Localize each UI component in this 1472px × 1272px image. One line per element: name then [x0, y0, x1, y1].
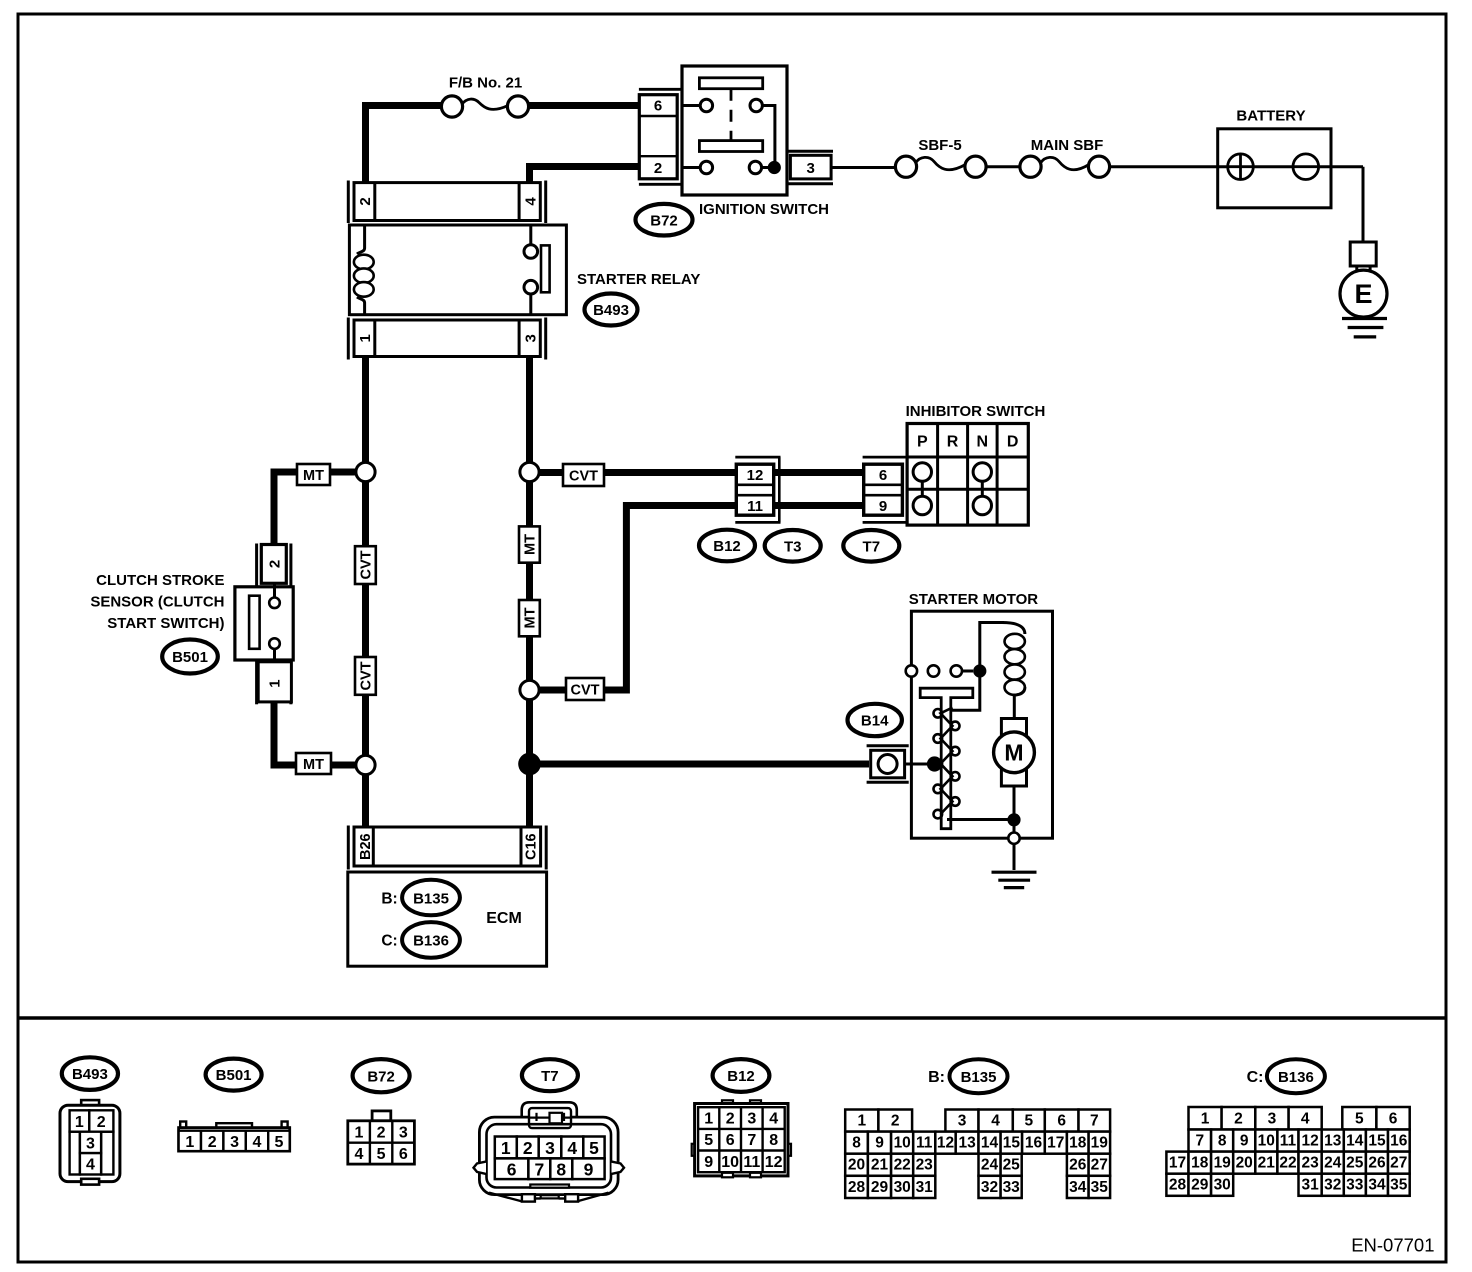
CVT tag right of node	[563, 464, 604, 486]
svg-text:27: 27	[1091, 1157, 1108, 1174]
label T7 oval	[843, 530, 899, 562]
svg-text:5: 5	[1355, 1110, 1364, 1127]
separator line	[18, 1016, 1446, 1020]
svg-text:MT: MT	[523, 607, 539, 628]
svg-text:4: 4	[354, 1146, 363, 1163]
svg-text:CVT: CVT	[359, 661, 375, 690]
inhibitor N contacts	[981, 472, 984, 506]
svg-text:9: 9	[704, 1154, 713, 1171]
battery positive terminal	[1228, 154, 1254, 180]
svg-text:B:: B:	[928, 1069, 945, 1086]
ECM connector row	[354, 827, 541, 866]
svg-text:1: 1	[704, 1111, 713, 1128]
svg-text:10: 10	[1258, 1132, 1275, 1149]
ignition switch connector pin 3	[788, 150, 833, 153]
svg-text:MT: MT	[303, 468, 324, 484]
junction dot at ignition switch output	[768, 161, 781, 174]
svg-text:18: 18	[1069, 1135, 1087, 1152]
svg-text:B12: B12	[713, 538, 741, 555]
svg-text:2: 2	[357, 197, 374, 205]
wire: B14 into motor to plunger contact	[905, 763, 935, 766]
wire: MT branch to clutch stroke sensor pin2	[274, 472, 366, 546]
op: ignition switch U-B72 body	[682, 66, 787, 195]
wire: starter relay pin4 to ignition switch pin2	[530, 167, 641, 185]
svg-text:2: 2	[266, 560, 283, 568]
svg-text:24: 24	[981, 1157, 999, 1174]
svg-text:B14: B14	[861, 713, 889, 730]
svg-text:25: 25	[1003, 1157, 1021, 1174]
connector B14	[867, 744, 909, 747]
bottom label B501 oval	[206, 1059, 262, 1091]
svg-text:25: 25	[1346, 1155, 1364, 1172]
T7 pin cells row 1	[495, 1137, 517, 1159]
svg-text:4: 4	[86, 1157, 95, 1174]
svg-text:8: 8	[1218, 1132, 1227, 1149]
svg-text:STARTER MOTOR: STARTER MOTOR	[909, 591, 1039, 608]
MT tag bottom	[296, 753, 331, 774]
svg-text:INHIBITOR SWITCH: INHIBITOR SWITCH	[906, 403, 1046, 420]
ground E block	[1350, 242, 1376, 266]
T7 bottom boot	[489, 1193, 522, 1202]
bottom connector B72	[372, 1111, 391, 1121]
svg-text:19: 19	[1091, 1135, 1109, 1152]
svg-text:20: 20	[1236, 1155, 1253, 1172]
svg-text:MAIN SBF: MAIN SBF	[1031, 137, 1104, 154]
svg-text:6: 6	[654, 98, 662, 115]
wire: contact dot down to plunger	[940, 671, 980, 710]
node: CVT junction top	[520, 462, 539, 481]
svg-text:19: 19	[1214, 1155, 1232, 1172]
starter relay body	[349, 225, 566, 315]
svg-text:6: 6	[1389, 1110, 1398, 1127]
svg-text:5: 5	[274, 1134, 283, 1151]
svg-text:3: 3	[958, 1112, 967, 1129]
svg-text:1: 1	[354, 1125, 363, 1142]
svg-text:26: 26	[1368, 1155, 1386, 1172]
ignition switch connector pins 6/2	[639, 88, 682, 91]
svg-text:2: 2	[891, 1112, 900, 1129]
CVT tag lower on MT line	[355, 657, 376, 695]
svg-text:26: 26	[1069, 1157, 1087, 1174]
svg-text:2: 2	[377, 1125, 386, 1142]
svg-text:2: 2	[726, 1111, 735, 1128]
clutch stroke sensor body B501	[235, 587, 293, 660]
svg-text:CLUTCH STROKE: CLUTCH STROKE	[96, 572, 224, 589]
ground symbol starter motor	[992, 871, 1037, 874]
svg-text:1: 1	[1201, 1110, 1210, 1127]
battery negative terminal	[1293, 154, 1319, 180]
svg-text:B493: B493	[593, 302, 629, 319]
bottom connector B501	[180, 1122, 186, 1129]
svg-text:IGNITION SWITCH: IGNITION SWITCH	[699, 201, 829, 218]
T7 pin cells row 2	[495, 1158, 529, 1179]
svg-text:4: 4	[769, 1111, 778, 1128]
svg-text:12: 12	[937, 1135, 954, 1152]
svg-text:6: 6	[399, 1146, 408, 1163]
svg-text:17: 17	[1169, 1155, 1186, 1172]
svg-text:9: 9	[584, 1160, 594, 1180]
ignition switch contact wires	[684, 104, 701, 107]
svg-text:CVT: CVT	[571, 683, 600, 699]
svg-text:B136: B136	[413, 933, 449, 950]
svg-text:3: 3	[230, 1134, 239, 1151]
wire: ignition pin3 to SBF-5	[831, 166, 896, 169]
wire to starter motor ground	[1013, 844, 1016, 870]
wire: pin11 to inhibitor pin9	[772, 502, 865, 509]
T7 side latches	[474, 1162, 487, 1174]
svg-text:12: 12	[765, 1154, 783, 1171]
starter motor field coil	[1002, 623, 1025, 635]
svg-text:30: 30	[894, 1179, 911, 1196]
svg-text:C:: C:	[381, 933, 397, 950]
bottom label B12 oval	[713, 1059, 770, 1092]
svg-text:28: 28	[848, 1179, 866, 1196]
wire: motor bottom junction	[1013, 786, 1016, 833]
svg-text:14: 14	[1346, 1132, 1364, 1149]
svg-text:B501: B501	[216, 1067, 252, 1084]
svg-text:SENSOR (CLUTCH: SENSOR (CLUTCH	[90, 594, 224, 611]
wire: relay pin3 down to ECM C16	[526, 358, 533, 827]
bottom connector B12	[722, 1100, 733, 1105]
ECM body	[348, 872, 547, 966]
svg-text:35: 35	[1390, 1177, 1408, 1194]
svg-text:8: 8	[852, 1135, 861, 1152]
node: CVT junction lower	[520, 680, 539, 699]
svg-text:30: 30	[1214, 1177, 1231, 1194]
wire: pin12 to inhibitor pin6	[772, 469, 865, 476]
svg-text:B501: B501	[172, 649, 208, 666]
wire: connector pin 11 loop down to CVT node lower	[530, 506, 738, 691]
svg-text:16: 16	[1025, 1135, 1043, 1152]
svg-text:B:: B:	[381, 890, 397, 907]
svg-text:C:: C:	[1247, 1069, 1264, 1086]
svg-text:21: 21	[871, 1157, 889, 1174]
svg-text:2: 2	[208, 1134, 217, 1151]
svg-text:34: 34	[1368, 1177, 1386, 1194]
wire: relay pin1 down to ECM B26	[362, 358, 369, 827]
svg-text:7: 7	[747, 1132, 756, 1149]
svg-text:2: 2	[523, 1138, 533, 1158]
svg-text:STARTER RELAY: STARTER RELAY	[577, 271, 700, 288]
ground E circle	[1340, 270, 1387, 317]
svg-text:33: 33	[1346, 1177, 1364, 1194]
svg-text:23: 23	[916, 1157, 934, 1174]
svg-text:13: 13	[1324, 1132, 1342, 1149]
bottom connector B135 grid	[845, 1110, 878, 1132]
wire: battery to ground E	[1362, 167, 1365, 243]
MT tag upper on CVT line	[519, 526, 540, 562]
svg-text:P: P	[917, 434, 928, 451]
svg-text:35: 35	[1091, 1179, 1109, 1196]
svg-text:11: 11	[916, 1135, 933, 1152]
wire: contact dot up to field coil	[980, 623, 1004, 672]
wire: junction to starter motor connector B14	[530, 761, 870, 768]
svg-text:31: 31	[916, 1179, 934, 1196]
bottom label B72 oval	[353, 1059, 410, 1092]
svg-text:15: 15	[1368, 1132, 1386, 1149]
svg-text:EN-07701: EN-07701	[1351, 1235, 1434, 1256]
svg-text:T7: T7	[863, 538, 881, 555]
svg-text:B135: B135	[413, 890, 449, 907]
svg-text:12: 12	[1301, 1132, 1318, 1149]
svg-text:1: 1	[185, 1134, 194, 1151]
svg-text:E: E	[1354, 279, 1372, 309]
svg-text:3: 3	[399, 1125, 408, 1142]
ECM connector brackets	[347, 826, 350, 870]
svg-text:20: 20	[848, 1157, 865, 1174]
svg-text:2: 2	[97, 1114, 106, 1131]
starter motor M armature	[1001, 719, 1026, 787]
bottom connector B136 grid	[1189, 1107, 1222, 1130]
svg-text:12: 12	[747, 467, 764, 484]
svg-text:2: 2	[654, 160, 662, 177]
svg-text:5: 5	[704, 1132, 713, 1149]
starter motor solenoid contacts	[906, 665, 917, 676]
bottom connector B493	[81, 1100, 99, 1108]
clutch sensor connector pin 2	[255, 544, 258, 588]
inhibitor P contacts	[921, 472, 924, 506]
svg-text:18: 18	[1191, 1155, 1209, 1172]
svg-text:4: 4	[1301, 1110, 1310, 1127]
label B493 oval	[585, 294, 638, 326]
svg-text:5: 5	[377, 1146, 386, 1163]
svg-text:B493: B493	[72, 1066, 108, 1083]
svg-text:4: 4	[991, 1112, 1000, 1129]
svg-text:15: 15	[1003, 1135, 1021, 1152]
starter relay bottom connector row	[354, 320, 540, 357]
wire: MAIN SBF to battery and battery internal bus	[1109, 165, 1363, 168]
svg-text:5: 5	[589, 1138, 599, 1158]
relay contact	[529, 225, 532, 245]
svg-text:6: 6	[879, 467, 887, 484]
svg-text:3: 3	[807, 160, 815, 177]
bottom label T7 oval	[522, 1059, 578, 1091]
svg-text:17: 17	[1047, 1135, 1064, 1152]
svg-text:32: 32	[1324, 1177, 1341, 1194]
svg-text:1: 1	[266, 679, 283, 687]
svg-text:CVT: CVT	[569, 469, 598, 485]
svg-text:16: 16	[1390, 1132, 1408, 1149]
svg-text:31: 31	[1301, 1177, 1319, 1194]
svg-text:3: 3	[1268, 1110, 1277, 1127]
svg-text:29: 29	[1191, 1177, 1209, 1194]
node: motor case terminal	[1008, 833, 1019, 844]
svg-text:4: 4	[567, 1138, 577, 1158]
svg-text:22: 22	[1279, 1155, 1296, 1172]
label B14 oval	[848, 704, 902, 736]
MT tag top	[297, 464, 330, 485]
bottom connector T7 housing	[522, 1102, 577, 1117]
svg-text:6: 6	[726, 1132, 735, 1149]
svg-text:34: 34	[1069, 1179, 1087, 1196]
svg-text:BATTERY: BATTERY	[1236, 108, 1305, 125]
node: MT junction bottom	[356, 755, 375, 774]
label T3 oval	[765, 530, 821, 562]
plunger return spring	[941, 708, 953, 815]
svg-text:27: 27	[1390, 1155, 1407, 1172]
starter relay top connector row	[354, 183, 540, 221]
fuse MAIN SBF	[1041, 157, 1090, 169]
svg-text:28: 28	[1169, 1177, 1187, 1194]
svg-text:3: 3	[522, 334, 539, 342]
svg-text:5: 5	[1024, 1112, 1033, 1129]
svg-text:6: 6	[507, 1160, 517, 1180]
CVT tag upper on MT line	[355, 546, 376, 584]
T7 latch detail	[529, 1108, 571, 1128]
ignition switch actuator dashed link	[730, 89, 733, 141]
battery	[1218, 129, 1331, 208]
label B72 oval	[636, 204, 693, 236]
svg-text:C16: C16	[523, 833, 539, 860]
CVT tag lower node	[566, 678, 604, 700]
svg-text:32: 32	[981, 1179, 998, 1196]
node: main junction dot	[518, 753, 541, 776]
label B12 oval	[699, 530, 755, 562]
svg-text:29: 29	[871, 1179, 889, 1196]
relay coil	[357, 225, 365, 254]
svg-text:3: 3	[545, 1138, 555, 1158]
svg-text:START SWITCH): START SWITCH)	[107, 615, 224, 632]
svg-text:M: M	[1004, 740, 1023, 766]
svg-text:CVT: CVT	[359, 550, 375, 579]
svg-text:14: 14	[981, 1135, 999, 1152]
svg-text:T7: T7	[541, 1068, 559, 1085]
starter motor box	[911, 611, 1052, 838]
svg-text:4: 4	[253, 1134, 262, 1151]
svg-text:10: 10	[721, 1154, 739, 1171]
ignition switch internal top bar	[699, 78, 762, 89]
svg-text:9: 9	[1240, 1132, 1249, 1149]
fuse F/B No. 21	[462, 99, 508, 109]
svg-text:R: R	[947, 434, 959, 451]
svg-text:11: 11	[1280, 1132, 1297, 1149]
svg-text:3: 3	[747, 1111, 756, 1128]
inhibitor switch grid	[907, 424, 1028, 526]
bottom label B493 oval	[62, 1057, 118, 1090]
svg-text:B12: B12	[727, 1068, 755, 1085]
svg-text:13: 13	[958, 1135, 976, 1152]
svg-text:SBF-5: SBF-5	[918, 137, 961, 154]
svg-text:B72: B72	[367, 1068, 395, 1085]
svg-text:7: 7	[1090, 1112, 1099, 1129]
svg-text:24: 24	[1324, 1155, 1342, 1172]
fuse SBF-5	[916, 157, 966, 169]
svg-text:MT: MT	[303, 757, 324, 773]
svg-text:9: 9	[875, 1135, 884, 1152]
wire: starter relay pin2 to fuse F/B No.21 to ignition switch pin6	[366, 106, 443, 185]
svg-text:7: 7	[534, 1160, 544, 1180]
svg-text:7: 7	[1195, 1132, 1204, 1149]
svg-text:9: 9	[879, 498, 887, 515]
svg-text:MT: MT	[523, 534, 539, 555]
svg-text:3: 3	[86, 1135, 95, 1152]
svg-text:1: 1	[501, 1138, 511, 1158]
MT tag lower on CVT line	[519, 600, 540, 636]
svg-text:B136: B136	[1278, 1069, 1314, 1086]
svg-text:ECM: ECM	[486, 910, 522, 927]
svg-text:8: 8	[556, 1160, 566, 1180]
svg-text:D: D	[1007, 434, 1019, 451]
starter motor plunger T bar	[920, 688, 973, 829]
svg-text:2: 2	[1234, 1110, 1243, 1127]
svg-text:4: 4	[522, 197, 539, 206]
svg-text:T3: T3	[784, 538, 802, 555]
svg-text:11: 11	[743, 1154, 760, 1171]
node: MT junction top	[356, 462, 375, 481]
svg-text:23: 23	[1301, 1155, 1319, 1172]
relay armature bar	[541, 245, 550, 292]
svg-text:33: 33	[1003, 1179, 1021, 1196]
svg-text:1: 1	[857, 1112, 866, 1129]
clutch sensor connector pin 1	[255, 660, 258, 704]
ignition switch contacts	[700, 99, 712, 111]
svg-text:22: 22	[894, 1157, 911, 1174]
svg-text:21: 21	[1258, 1155, 1276, 1172]
connector pins 12/11 (B12/T3)	[735, 456, 780, 459]
wire: CVT node to inhibitor connector pin 12	[530, 469, 738, 476]
svg-text:B26: B26	[358, 833, 374, 860]
svg-text:B72: B72	[650, 212, 678, 229]
svg-text:B135: B135	[961, 1069, 997, 1086]
wire: SBF-5 to MAIN SBF	[985, 165, 1020, 168]
connector pins 6/9 (T7)	[863, 456, 908, 459]
svg-text:8: 8	[769, 1132, 778, 1149]
svg-text:F/B No. 21: F/B No. 21	[449, 75, 522, 92]
ignition switch internal lower bar	[699, 141, 762, 152]
svg-text:1: 1	[357, 334, 374, 342]
svg-text:N: N	[977, 434, 989, 451]
svg-text:6: 6	[1057, 1112, 1066, 1129]
label B501 oval	[162, 640, 218, 674]
svg-text:10: 10	[894, 1135, 911, 1152]
starter relay connector brackets	[347, 181, 350, 224]
ground symbol under E	[1342, 317, 1387, 320]
svg-text:1: 1	[75, 1114, 84, 1131]
wire: clutch stroke sensor pin1 down and back to MT node	[274, 703, 366, 766]
svg-text:11: 11	[747, 498, 763, 515]
